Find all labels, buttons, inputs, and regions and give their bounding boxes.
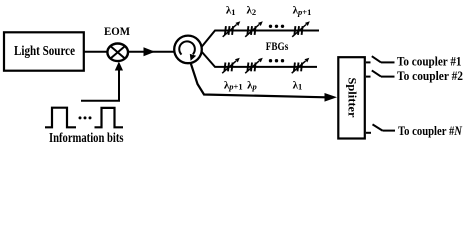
output switch N <box>366 124 395 132</box>
svg-text:λp+1: λp+1 <box>293 5 312 17</box>
wire: circulator fork to upper FBG line <box>202 31 320 48</box>
svg-text:To coupler #2: To coupler #2 <box>397 68 463 83</box>
svg-text:λp+1: λp+1 <box>224 79 243 91</box>
svg-text:FBGs: FBGs <box>266 39 289 53</box>
circulator (circle with rotation arrow) <box>174 36 202 64</box>
FBG 1 bottom row <box>292 58 310 74</box>
arrowhead into splitter <box>325 93 338 102</box>
arrowhead on wire to circulator <box>144 47 156 56</box>
FBG P+1 bottom row <box>222 58 240 74</box>
svg-text:To coupler #1: To coupler #1 <box>397 54 462 69</box>
output switch 1 <box>366 56 395 62</box>
svg-text:Information bits: Information bits <box>49 131 124 146</box>
splitter box <box>338 57 365 138</box>
FBG 2 top row <box>245 21 263 37</box>
EOM modulator U1 (circle with X) <box>107 44 128 62</box>
FBG 1 top row <box>223 21 241 37</box>
light source box <box>4 32 84 70</box>
wire: circulator down to splitter <box>191 63 327 98</box>
svg-text:λ2: λ2 <box>247 5 257 17</box>
svg-text:Splitter: Splitter <box>346 78 360 119</box>
ellipsis dots bottom FBG row <box>269 59 284 62</box>
svg-text:λ1: λ1 <box>226 5 236 17</box>
wire: light source to EOM <box>84 51 108 53</box>
svg-text:λp: λp <box>247 79 257 91</box>
FBG P+1 top row <box>292 21 310 37</box>
svg-text:λ1: λ1 <box>293 79 303 91</box>
FBG P bottom row <box>245 58 263 74</box>
ellipsis dots in waveform <box>79 116 92 119</box>
information bits waveform <box>45 108 123 128</box>
wire: circulator fork to lower FBG line <box>202 52 318 67</box>
svg-text:Light Source: Light Source <box>14 44 75 59</box>
svg-text:To coupler #N: To coupler #N <box>398 123 462 138</box>
output switch 2 <box>366 70 395 76</box>
wire: EOM to circulator <box>128 51 174 53</box>
svg-text:EOM: EOM <box>104 24 130 38</box>
wire: information bits elbow into EOM <box>81 69 119 101</box>
arrowhead into EOM <box>115 62 123 71</box>
ellipsis dots top FBG row <box>269 25 284 28</box>
